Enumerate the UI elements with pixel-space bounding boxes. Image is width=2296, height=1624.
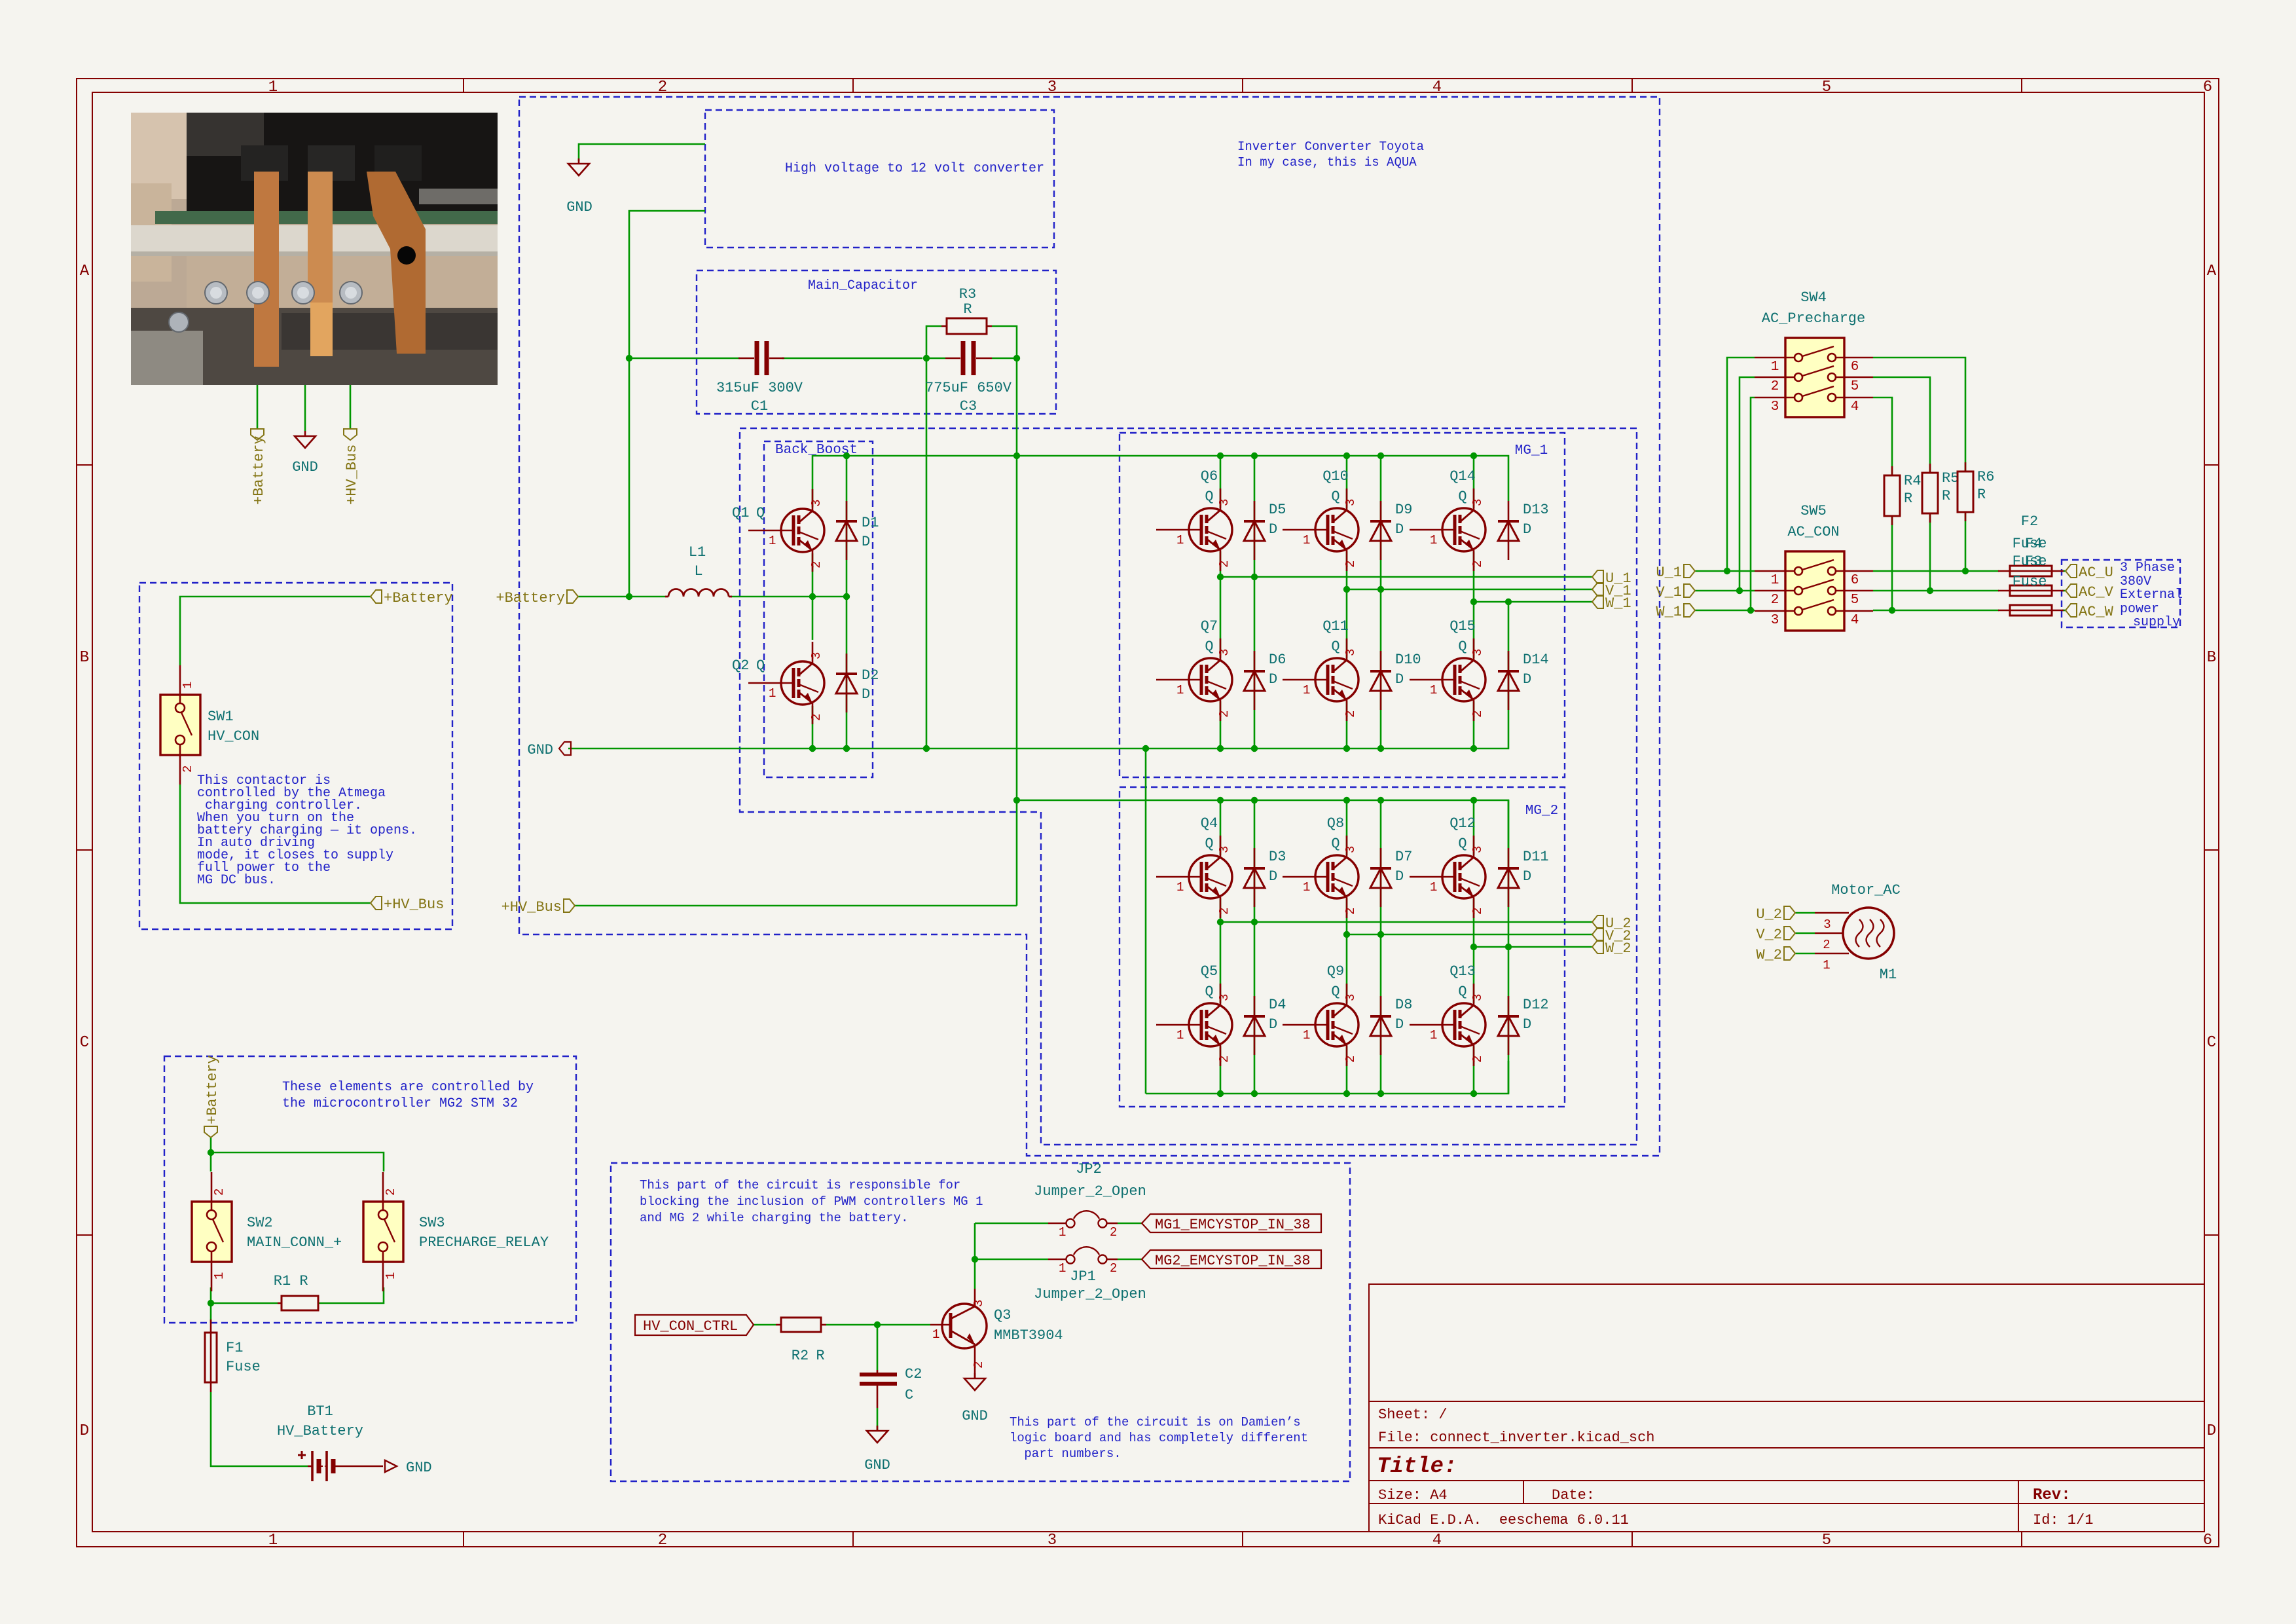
svg-text:Motor_AC: Motor_AC	[1831, 882, 1901, 898]
svg-text:Rev:: Rev:	[2033, 1486, 2071, 1504]
wire Q8 column	[1346, 800, 1348, 1094]
svg-text:C: C	[80, 1034, 89, 1052]
diode D4	[1244, 996, 1265, 1055]
svg-text:W_2: W_2	[1756, 947, 1782, 963]
svg-text:W_2: W_2	[1605, 940, 1631, 957]
switch SW3 PRECHARGE_RELAY	[363, 1172, 403, 1291]
wire +Battery to SW2 SW3	[211, 1137, 384, 1172]
svg-text:R: R	[1977, 487, 1986, 503]
svg-text:V_1: V_1	[1656, 584, 1682, 600]
label Q5	[1201, 963, 1218, 1000]
note box: Back_Boost	[764, 441, 873, 777]
transistor Q8	[1283, 836, 1358, 918]
note text: SW1 contactor explanation	[197, 773, 417, 888]
svg-text:D1: D1	[862, 515, 879, 531]
svg-text:3: 3	[1048, 79, 1057, 96]
svg-text:D14: D14	[1523, 652, 1549, 668]
wire V_2 to motor	[1795, 932, 1815, 934]
svg-text:R5: R5	[1942, 470, 1959, 487]
capacitor C2	[860, 1370, 897, 1408]
svg-text:HV_Battery: HV_Battery	[277, 1423, 363, 1439]
svg-text:5: 5	[1822, 1532, 1831, 1549]
svg-text:D: D	[1395, 521, 1404, 538]
svg-text:D9: D9	[1395, 502, 1412, 518]
svg-text:AC_V: AC_V	[2079, 584, 2114, 600]
svg-text:+Battery: +Battery	[496, 590, 565, 606]
svg-text:BT1: BT1	[307, 1403, 333, 1420]
wire Q4 column	[1220, 800, 1222, 1094]
svg-text:315uF 300V: 315uF 300V	[716, 380, 803, 396]
resistor R1	[278, 1296, 318, 1310]
global label MG1_EMCYSTOP_IN_38	[1142, 1214, 1321, 1233]
svg-text:Q12: Q12	[1449, 815, 1476, 832]
svg-text:Inverter Converter Toyota: Inverter Converter Toyota	[1237, 139, 1424, 154]
wire F1 to BT1	[211, 1392, 308, 1466]
svg-text:Q2: Q2	[732, 657, 749, 674]
label JP1	[1034, 1268, 1146, 1302]
wire Q6 column	[1220, 456, 1222, 748]
wire D7 D8 column	[1380, 800, 1382, 1094]
svg-text:part numbers.: part numbers.	[1017, 1447, 1121, 1461]
wire R3 branch	[926, 326, 1017, 358]
svg-text:AC_CON: AC_CON	[1787, 524, 1839, 540]
svg-text:3: 3	[1823, 917, 1831, 932]
label R3	[959, 286, 976, 318]
wire +HV_Bus riser	[575, 358, 1017, 906]
power GND at converter	[568, 158, 589, 175]
svg-text:Q15: Q15	[1449, 618, 1476, 635]
wire photo +HV_Bus drop	[350, 385, 352, 429]
hierarchical label U_2 at motor	[1756, 906, 1795, 923]
svg-text:D: D	[1269, 1016, 1277, 1033]
svg-text:1: 1	[932, 1327, 939, 1342]
wire Q14 column	[1473, 456, 1475, 748]
wire R4 bottom	[1891, 516, 1893, 610]
wire main capacitor line	[629, 358, 1017, 360]
svg-text:Q: Q	[1458, 489, 1467, 505]
hierarchical label U_1 at MG_1	[1592, 570, 1631, 587]
svg-text:SW3: SW3	[419, 1215, 445, 1231]
note box: 3 phase external power supply	[2062, 560, 2180, 627]
wire photo GND drop	[304, 385, 306, 431]
svg-text:JP2: JP2	[1076, 1161, 1102, 1177]
svg-text:Jumper_2_Open: Jumper_2_Open	[1034, 1286, 1146, 1302]
svg-text:Q: Q	[1331, 638, 1339, 655]
svg-text:logic board and has completely: logic board and has completely different	[1010, 1431, 1308, 1445]
wire V_2 line	[1347, 934, 1592, 936]
label R6	[1977, 469, 1994, 503]
hierarchical label V_2 at motor	[1756, 927, 1795, 943]
svg-text:W_1: W_1	[1656, 604, 1682, 620]
svg-text:MG1_EMCYSTOP_IN_38: MG1_EMCYSTOP_IN_38	[1155, 1217, 1311, 1233]
svg-text:F4: F4	[2025, 536, 2042, 552]
svg-text:D: D	[1269, 868, 1277, 885]
svg-text:2: 2	[658, 1532, 667, 1549]
transistor Q9	[1283, 984, 1358, 1066]
svg-text:MG_1: MG_1	[1515, 443, 1548, 458]
hierarchical label U_2 at MG_2	[1592, 915, 1631, 932]
svg-text:SW4: SW4	[1800, 289, 1827, 306]
label Q6	[1201, 468, 1218, 505]
label D5	[1269, 502, 1286, 538]
svg-text:HV_CON: HV_CON	[208, 728, 259, 745]
svg-text:D11: D11	[1523, 849, 1549, 865]
wire W_2 to motor	[1795, 953, 1815, 955]
hierarchical label V_1 at SW5	[1656, 584, 1695, 600]
label Q7	[1201, 618, 1218, 655]
svg-text:R: R	[299, 1273, 308, 1289]
diode D8	[1370, 996, 1391, 1055]
svg-text:GND: GND	[406, 1460, 432, 1476]
svg-text:C: C	[905, 1387, 913, 1403]
svg-text:D: D	[1523, 671, 1531, 688]
wire JP2 row	[975, 1223, 1142, 1225]
svg-text:PRECHARGE_RELAY: PRECHARGE_RELAY	[419, 1234, 549, 1251]
label R5	[1942, 470, 1959, 504]
svg-text:Q: Q	[1205, 984, 1213, 1000]
hierarchical label +HV_Bus at SW1	[371, 896, 444, 913]
wire V_1 line	[1347, 589, 1592, 591]
note box: SW1 contactor	[139, 583, 452, 929]
svg-text:Title:: Title:	[1377, 1454, 1457, 1479]
diode D11	[1498, 848, 1519, 907]
svg-text:5: 5	[1822, 79, 1831, 96]
label D8	[1395, 997, 1412, 1033]
svg-text:+HV_Bus: +HV_Bus	[384, 896, 444, 913]
svg-text:Q4: Q4	[1201, 815, 1218, 832]
svg-text:Q10: Q10	[1322, 468, 1349, 485]
switch SW5 AC_CON	[1755, 551, 1873, 631]
hierarchical label +Battery above SW2	[204, 1055, 221, 1137]
svg-text:This part of the circuit is re: This part of the circuit is responsible …	[640, 1178, 960, 1192]
svg-text:Q11: Q11	[1322, 618, 1349, 635]
label R1	[274, 1273, 308, 1289]
svg-text:M1: M1	[1880, 967, 1897, 983]
svg-text:Q: Q	[1458, 984, 1467, 1000]
svg-text:Q: Q	[1205, 836, 1213, 852]
svg-text:GND: GND	[527, 742, 553, 758]
wire U_1 to SW5	[1695, 570, 1755, 572]
svg-text:+Battery: +Battery	[251, 435, 267, 505]
wire C2 branch	[877, 1325, 879, 1431]
wire SW4 pin2 drop	[1740, 377, 1755, 591]
svg-text:D: D	[1523, 868, 1531, 885]
svg-text:Q: Q	[1458, 638, 1467, 655]
wire R6 bottom	[1965, 513, 1967, 571]
svg-text:D8: D8	[1395, 997, 1412, 1013]
svg-text:R6: R6	[1977, 469, 1994, 485]
label Q12	[1449, 815, 1476, 852]
label D9	[1395, 502, 1412, 538]
svg-text:F1: F1	[226, 1340, 243, 1356]
svg-text:D: D	[1395, 868, 1404, 885]
global label MG2_EMCYSTOP_IN_38	[1142, 1250, 1321, 1269]
transistor Q13	[1410, 984, 1485, 1066]
svg-text:B: B	[80, 649, 89, 667]
svg-text:GND: GND	[864, 1457, 890, 1473]
svg-text:2: 2	[384, 1189, 398, 1196]
pin numbers SW1	[181, 682, 195, 773]
svg-text:MG2_EMCYSTOP_IN_38: MG2_EMCYSTOP_IN_38	[1155, 1253, 1311, 1269]
hierarchical label +HV_Bus	[501, 899, 575, 915]
wire Q1 column	[812, 487, 814, 748]
svg-text:1: 1	[212, 1272, 227, 1280]
wire W_1 line	[1474, 601, 1592, 603]
svg-text:Id: 1/1: Id: 1/1	[2033, 1512, 2093, 1528]
svg-text:D: D	[2207, 1422, 2216, 1440]
transistor Q10	[1283, 489, 1358, 571]
note box: High voltage to 12 volt converter	[705, 110, 1054, 248]
transistor Q14	[1410, 489, 1485, 571]
svg-text:R1: R1	[274, 1273, 291, 1289]
svg-text:B: B	[2207, 649, 2216, 667]
svg-text:+Battery: +Battery	[204, 1055, 221, 1124]
svg-text:R: R	[1942, 488, 1950, 504]
label Q15	[1449, 618, 1476, 655]
svg-text:Q6: Q6	[1201, 468, 1218, 485]
pin numbers SW3	[384, 1189, 398, 1280]
hierarchical label W_2 at motor	[1756, 947, 1795, 963]
wire W_1 to SW5	[1695, 610, 1755, 612]
wire Q10 column	[1346, 456, 1348, 748]
svg-text:Q14: Q14	[1449, 468, 1476, 485]
svg-text:F3: F3	[2025, 553, 2042, 570]
svg-text:Q: Q	[1331, 836, 1339, 852]
motor M1 Motor_AC	[1815, 908, 1894, 959]
transistor Q11	[1283, 638, 1358, 721]
svg-text:AC_W: AC_W	[2079, 604, 2114, 620]
svg-text:JP1: JP1	[1070, 1268, 1096, 1285]
svg-text:D2: D2	[862, 667, 879, 684]
transistor Q12	[1410, 836, 1485, 918]
svg-text:AC_U: AC_U	[2079, 564, 2113, 581]
wire W_2 line	[1474, 946, 1592, 948]
label GND at dc bus	[527, 742, 571, 758]
svg-text:MG_2: MG_2	[1525, 803, 1558, 819]
wire SW4 pin5 to R5	[1873, 377, 1930, 473]
label R2	[792, 1348, 825, 1364]
ground under Q3	[964, 1373, 985, 1390]
svg-text:Fuse: Fuse	[2013, 574, 2047, 590]
wire D1 D2 column	[846, 456, 848, 748]
label D1	[862, 515, 879, 550]
label SW5	[1787, 503, 1839, 540]
svg-text:Q: Q	[1331, 489, 1339, 505]
wire Q3 collector riser	[974, 1223, 976, 1289]
svg-text:6: 6	[2203, 1532, 2212, 1549]
svg-text:Q: Q	[1205, 638, 1213, 655]
wire +Battery to L1 to back-boost	[578, 596, 847, 598]
wire DC bus top rail	[812, 456, 1508, 501]
label D12	[1523, 997, 1549, 1033]
hierarchical label +Battery	[496, 590, 578, 606]
svg-text:This part of the circuit is on: This part of the circuit is on Damien’s	[1010, 1415, 1301, 1430]
wire converter to battery node	[629, 211, 705, 597]
resistor R2	[776, 1318, 826, 1332]
transistor Q15	[1410, 638, 1485, 721]
note box: MG_2	[1120, 787, 1565, 1107]
jumper JP1 Jumper_2_Open	[1048, 1247, 1118, 1276]
svg-text:L: L	[694, 563, 702, 580]
svg-text:U_1: U_1	[1656, 564, 1682, 581]
svg-text:R: R	[963, 301, 972, 318]
switch SW4 AC_Precharge	[1755, 338, 1873, 417]
svg-text:1: 1	[268, 1532, 278, 1549]
svg-text:C: C	[2207, 1034, 2216, 1052]
svg-text:R4: R4	[1904, 473, 1921, 489]
svg-text:Q3: Q3	[994, 1307, 1011, 1323]
wire V_1 to SW5	[1695, 590, 1755, 592]
note box: logic board section	[611, 1163, 1350, 1481]
global label HV_CON_CTRL	[635, 1315, 754, 1335]
hierarchical label +HV_Bus under photo	[344, 429, 360, 505]
svg-text:2: 2	[1823, 938, 1830, 952]
pin numbers SW2	[212, 1189, 227, 1280]
label Q14	[1449, 468, 1476, 505]
title block	[1369, 1284, 2204, 1532]
label SW4	[1762, 289, 1865, 327]
svg-text:4: 4	[1432, 1532, 1442, 1549]
svg-text:Jumper_2_Open: Jumper_2_Open	[1034, 1183, 1146, 1200]
wire C1C3 ground drop	[926, 358, 928, 748]
transistor Q6	[1156, 489, 1232, 571]
transistor Q2	[748, 642, 824, 724]
svg-text:These elements are controlled: These elements are controlled by	[282, 1080, 534, 1095]
svg-text:Q1: Q1	[732, 505, 749, 521]
wire MG2 top rail	[1017, 800, 1508, 848]
wire SW4 pin1 drop	[1727, 358, 1755, 571]
label L1	[689, 544, 706, 580]
hierarchical label W_2 at MG_2	[1592, 940, 1631, 957]
svg-text:Date:: Date:	[1552, 1487, 1595, 1504]
wire SW5 pin4 to F3	[1873, 610, 1999, 612]
jumper JP2 Jumper_2_Open	[1048, 1211, 1118, 1240]
diode D5	[1244, 501, 1265, 560]
label Q9	[1327, 963, 1344, 1000]
label D6	[1269, 652, 1286, 688]
svg-text:3: 3	[1048, 1532, 1057, 1549]
diode D14	[1498, 651, 1519, 710]
wire SW5 pin6 to F2	[1873, 570, 1999, 572]
svg-text:D: D	[1395, 1016, 1404, 1033]
svg-text:GND: GND	[292, 459, 318, 475]
svg-text:3 Phase: 3 Phase	[2120, 561, 2175, 576]
svg-text:R2: R2	[792, 1348, 809, 1364]
wire R5 bottom	[1929, 515, 1931, 591]
svg-text:2: 2	[658, 79, 667, 96]
svg-text:blocking the inclusion of PWM: blocking the inclusion of PWM controller…	[640, 1194, 983, 1209]
note box: inverter bridges outline	[740, 428, 1637, 1145]
fuse F2	[1998, 566, 2064, 576]
note box: SW2 SW3 precharge	[164, 1056, 576, 1323]
svg-text:D4: D4	[1269, 997, 1286, 1013]
transistor Q5	[1156, 984, 1232, 1066]
svg-text:and MG 2 while charging the ba: and MG 2 while charging the battery.	[640, 1211, 908, 1225]
fuse F3	[1998, 605, 2064, 616]
svg-text:HV_CON_CTRL: HV_CON_CTRL	[643, 1318, 738, 1335]
label Q1	[732, 505, 765, 521]
label D10	[1395, 652, 1421, 688]
fuse F1	[205, 1319, 217, 1392]
svg-text:775uF 650V: 775uF 650V	[925, 380, 1012, 396]
fuse F4	[1998, 585, 2064, 596]
transistor Q3 MMBT3904	[930, 1289, 987, 1378]
hierarchical label AC_U	[2066, 564, 2113, 581]
svg-text:1: 1	[384, 1272, 398, 1280]
label C2	[905, 1366, 922, 1403]
wire SW4 pin3 drop	[1751, 397, 1755, 610]
svg-text:SW5: SW5	[1800, 503, 1827, 519]
label Q10	[1322, 468, 1349, 505]
svg-text:D: D	[1269, 671, 1277, 688]
pin numbers Q3	[932, 1300, 986, 1369]
transistor Q7	[1156, 638, 1232, 721]
note text: part of circuit on logic board	[1010, 1415, 1308, 1461]
diode D7	[1370, 848, 1391, 907]
resistor R5	[1922, 464, 1938, 523]
wire D9 D10 column	[1380, 456, 1382, 748]
svg-text:A: A	[2207, 263, 2217, 280]
wire U_2 to motor	[1795, 912, 1815, 914]
label D3	[1269, 849, 1286, 885]
svg-text:2: 2	[972, 1361, 986, 1369]
svg-text:D5: D5	[1269, 502, 1286, 518]
note text: blocking PWM controllers	[640, 1178, 983, 1225]
label F1	[226, 1340, 261, 1375]
label M1	[1831, 882, 1901, 983]
svg-text:KiCad E.D.A. eeschema 6.0.11: KiCad E.D.A. eeschema 6.0.11	[1378, 1512, 1629, 1528]
note box: Main_Capacitor	[697, 270, 1056, 414]
hierarchical label W_1 at MG_1	[1592, 595, 1631, 612]
svg-text:1: 1	[1823, 958, 1830, 972]
wire GND rail	[568, 602, 1508, 748]
hierarchical label AC_W	[2066, 604, 2114, 620]
label BT1	[277, 1403, 363, 1439]
wire SW1 pin1 net	[180, 597, 371, 665]
note text: 3 Phase 380V External power supply	[2120, 561, 2183, 630]
diode D9	[1370, 501, 1391, 560]
wire U_2 line	[1220, 921, 1592, 923]
svg-text:6: 6	[2203, 79, 2212, 96]
wire SW5 pin5 to F4	[1873, 590, 1999, 592]
svg-text:the microcontroller MG2 STM 32: the microcontroller MG2 STM 32	[282, 1096, 518, 1111]
wire D11 D12 column	[1508, 800, 1510, 1094]
wire F4 to AC_V	[2062, 590, 2066, 592]
wire converter GND	[579, 144, 705, 161]
svg-text:Q: Q	[1331, 984, 1339, 1000]
svg-text:Q13: Q13	[1449, 963, 1476, 980]
label C3	[925, 380, 1012, 415]
diode D1	[836, 501, 857, 560]
label D7	[1395, 849, 1412, 885]
hierarchical label W_1 at SW5	[1656, 604, 1695, 620]
svg-text:C3: C3	[960, 398, 977, 415]
note box: MG_1	[1120, 433, 1565, 777]
svg-text:R: R	[1904, 490, 1912, 507]
svg-text:D: D	[862, 534, 870, 550]
transistor Q4	[1156, 836, 1232, 918]
svg-text:+Battery: +Battery	[384, 590, 453, 606]
power GND under photo	[295, 431, 316, 448]
wire SW2 to R1 node	[211, 1287, 384, 1323]
svg-text:Q: Q	[1205, 489, 1213, 505]
svg-text:A: A	[80, 263, 90, 280]
svg-text:D: D	[1523, 1016, 1531, 1033]
svg-text:AC_Precharge: AC_Precharge	[1762, 310, 1865, 327]
wire HV_CON_CTRL to R2	[754, 1324, 776, 1326]
svg-text:D6: D6	[1269, 652, 1286, 668]
wire F3 to AC_W	[2062, 610, 2066, 612]
